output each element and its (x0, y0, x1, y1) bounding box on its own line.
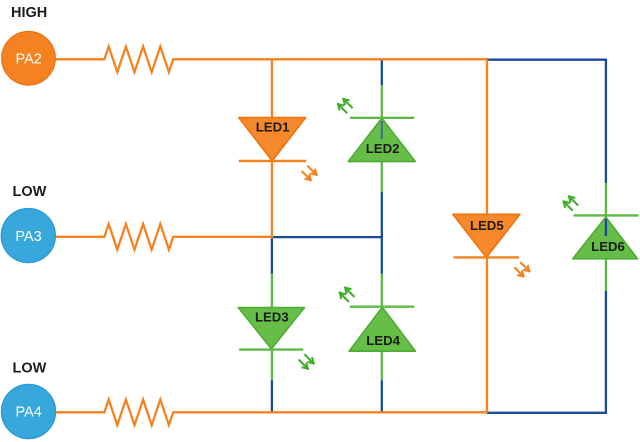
wire: top rail orange (net PA2) y=59 (54, 58, 488, 60)
wire: LED1 cathode to PA3 junction (271, 161, 273, 238)
wire: LED2 top blue segment from top rail (381, 61, 383, 86)
pin PA3 (1, 209, 55, 263)
wire: bottom rail blue segment and right column up (487, 291, 606, 413)
LED D6 LED6 (564, 196, 639, 258)
svg-text:PA2: PA2 (16, 52, 42, 68)
svg-text:HIGH: HIGH (11, 5, 47, 21)
resistor R3 (104, 400, 173, 426)
wire: LED2 cathode green stub (381, 162, 383, 193)
wire: LED2 bottom blue segment to PA3 junction (381, 192, 383, 238)
svg-text:LED5: LED5 (470, 218, 504, 233)
wire: PA3 rail orange y=237 (54, 236, 272, 238)
svg-text:LED3: LED3 (255, 309, 289, 324)
pin PA2 (2, 32, 55, 85)
wire: LED4 bottom blue segment to bottom rail (381, 381, 383, 412)
wire: bottom rail orange (net PA4) y=412 (54, 411, 488, 413)
wire: LED4 top blue segment from PA3 junction (381, 236, 383, 274)
wire: LED5 anode drop from top rail (486, 59, 488, 215)
wire: LED4 cathode green stub (381, 351, 383, 380)
wire: top rail blue segment to right column (487, 60, 606, 183)
pin PA4 (2, 385, 56, 439)
resistor R1 (104, 47, 173, 73)
svg-text:LED6: LED6 (591, 239, 625, 254)
LED D2 LED2 (338, 99, 415, 162)
svg-text:LOW: LOW (13, 361, 47, 377)
wire: LED3 bottom blue segment to bottom rail (271, 381, 273, 412)
LED D3 LED3 (238, 308, 313, 369)
resistor R2 (104, 224, 173, 250)
wire: LED3 top blue segment from PA3 junction (271, 238, 273, 273)
wire: PA3 rail blue segment to LED2/LED4 column (271, 236, 383, 238)
svg-text:LED1: LED1 (256, 120, 290, 135)
svg-text:PA4: PA4 (16, 405, 42, 421)
svg-text:LOW: LOW (13, 184, 47, 200)
wire: LED3 anode green stub (271, 274, 273, 309)
wire: LED3 cathode green stub (271, 349, 273, 381)
LED D5 LED5 (453, 214, 529, 276)
svg-text:PA3: PA3 (15, 229, 41, 245)
wire: LED6 cathode green stub (605, 259, 607, 291)
svg-text:LED4: LED4 (366, 333, 400, 348)
svg-text:LED2: LED2 (366, 141, 400, 156)
LED D4 LED4 (340, 288, 416, 351)
wire: LED2 anode green stub (381, 85, 383, 118)
wire: LED6 anode green stub (605, 183, 607, 217)
wire: LED4 anode green stub (381, 274, 383, 308)
wire: LED5 cathode down to bottom rail (486, 257, 488, 412)
LED D1 LED1 (239, 118, 317, 181)
wire: LED1 anode drop from top rail (271, 59, 273, 118)
